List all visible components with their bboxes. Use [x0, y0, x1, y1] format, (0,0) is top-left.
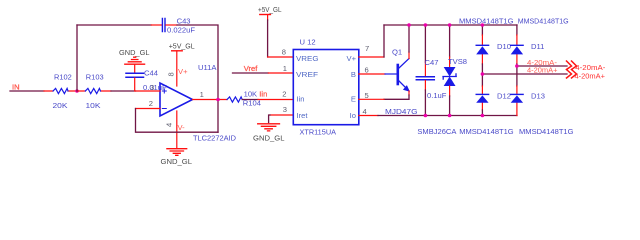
- svg-text:6: 6: [365, 66, 369, 75]
- svg-text:10K: 10K: [86, 101, 101, 110]
- svg-text:VREG: VREG: [296, 54, 319, 63]
- wire Io pin4 bottom bus: [359, 115, 517, 117]
- op-amp U11A: [136, 63, 237, 149]
- ground GND_GL above C44: [119, 48, 150, 73]
- svg-text:XTR115UA: XTR115UA: [300, 128, 337, 137]
- svg-text:R104: R104: [243, 99, 261, 108]
- svg-text:0.022uF: 0.022uF: [167, 25, 195, 34]
- capacitor C44: [126, 69, 167, 93]
- ground GND_GL at Iret: [253, 124, 285, 143]
- svg-text:C44: C44: [144, 69, 158, 78]
- svg-text:SMBJ26CA: SMBJ26CA: [417, 127, 457, 136]
- svg-text:7: 7: [365, 44, 369, 53]
- wire IN to R102: [10, 90, 44, 92]
- svg-text:0.1uF: 0.1uF: [427, 91, 447, 100]
- svg-text:U 12: U 12: [300, 37, 316, 46]
- svg-text:Q1: Q1: [392, 48, 402, 57]
- wire feedback loop: [136, 109, 219, 133]
- junction dots bottom bus: [424, 114, 428, 118]
- capacitor C43: [151, 17, 195, 35]
- diode D10: [476, 42, 511, 54]
- svg-text:TVS8: TVS8: [448, 57, 467, 66]
- diode D11: [511, 42, 545, 54]
- wire top-right bus: [384, 24, 517, 26]
- svg-text:V-: V-: [178, 123, 186, 132]
- svg-text:MMSD4148T1G: MMSD4148T1G: [459, 127, 514, 136]
- svg-text:4-20mA+: 4-20mA+: [527, 68, 558, 75]
- svg-text:V+: V+: [347, 54, 357, 63]
- svg-text:D10: D10: [497, 42, 511, 51]
- wire bridge left rail: [481, 25, 483, 116]
- svg-text:4-20mA+: 4-20mA+: [575, 73, 606, 80]
- svg-text:D11: D11: [531, 42, 544, 51]
- svg-text:U11A: U11A: [198, 63, 217, 72]
- power +5V_GL for U12: [258, 5, 293, 57]
- svg-text:GND_GL: GND_GL: [119, 48, 150, 57]
- svg-text:IN: IN: [12, 82, 20, 91]
- diode D13: [511, 92, 545, 103]
- wire output 4-20mA+: [482, 73, 567, 75]
- svg-text:4: 4: [165, 123, 174, 127]
- svg-text:Vref: Vref: [244, 64, 259, 73]
- transistor Q1: [384, 25, 418, 116]
- svg-text:1: 1: [283, 64, 287, 73]
- ground GND_GL below U11A: [161, 149, 193, 166]
- diode D12: [476, 92, 511, 103]
- wire E pin5: [359, 98, 384, 100]
- capacitor C47: [416, 25, 446, 116]
- resistor R102: [44, 72, 77, 110]
- svg-text:2: 2: [282, 90, 286, 99]
- op-amp U12 XTR115UA box: [282, 37, 369, 136]
- wire bridge right rail: [516, 25, 518, 116]
- wire B pin6 to Q1 base: [359, 73, 385, 75]
- wire output 4-20mA-: [517, 65, 567, 67]
- svg-text:MJD47G: MJD47G: [385, 107, 418, 116]
- junction dot bridge left mid: [481, 72, 485, 76]
- power +5V_GL for U11A: [169, 41, 195, 86]
- wire V+ pin7 riser to top bus: [359, 25, 384, 57]
- resistor R104: [227, 89, 293, 107]
- resistor R103: [77, 72, 111, 110]
- svg-text:8: 8: [282, 48, 286, 57]
- svg-text:MMSD4148T1G: MMSD4148T1G: [518, 17, 569, 26]
- svg-text:MMSD4148T1G: MMSD4148T1G: [519, 127, 574, 136]
- svg-text:Iin: Iin: [297, 95, 305, 104]
- svg-text:4-20mA-: 4-20mA-: [527, 60, 558, 67]
- svg-text:8: 8: [167, 72, 176, 76]
- node output junction: [216, 98, 220, 102]
- node A junction R102/R103: [75, 89, 79, 93]
- port 4-20mA+ chevron: [567, 70, 606, 81]
- svg-text:2: 2: [149, 99, 153, 108]
- TVS diode TVS8: [417, 25, 467, 136]
- svg-text:C43: C43: [177, 17, 191, 26]
- port 4-20mA- chevron: [567, 61, 607, 72]
- junction dot bridge right mid: [515, 64, 519, 68]
- svg-text:D12: D12: [497, 92, 511, 101]
- svg-text:Iret: Iret: [297, 111, 309, 120]
- svg-text:4-20mA-: 4-20mA-: [575, 65, 606, 72]
- junction dots top bus: [407, 23, 411, 27]
- svg-text:Io: Io: [350, 111, 356, 120]
- svg-text:Iin: Iin: [259, 89, 267, 98]
- svg-text:3: 3: [283, 105, 287, 114]
- svg-text:5: 5: [365, 91, 369, 100]
- wire riser from node A up to C43 bus: [76, 25, 78, 91]
- svg-text:1: 1: [200, 90, 204, 99]
- svg-text:3: 3: [150, 83, 154, 92]
- svg-text:R103: R103: [86, 72, 104, 81]
- svg-text:4: 4: [363, 107, 367, 116]
- wire C43 to output riser: [177, 25, 218, 132]
- svg-text:20K: 20K: [53, 101, 68, 110]
- wire R103 to U11A + input: [111, 90, 136, 92]
- svg-text:C47: C47: [425, 58, 439, 67]
- svg-text:E: E: [351, 95, 356, 104]
- svg-text:D13: D13: [531, 92, 545, 101]
- wire Iret to ground: [269, 115, 294, 123]
- svg-text:+5V_GL: +5V_GL: [258, 5, 282, 14]
- svg-text:GND_GL: GND_GL: [161, 157, 193, 166]
- svg-text:V+: V+: [178, 67, 188, 76]
- svg-text:B: B: [351, 70, 356, 79]
- svg-text:GND_GL: GND_GL: [253, 133, 285, 142]
- node Vref net label and wire: [233, 64, 294, 73]
- svg-text:R102: R102: [54, 72, 72, 81]
- svg-text:TLC2272AID: TLC2272AID: [193, 133, 236, 142]
- svg-text:10K: 10K: [244, 89, 258, 98]
- svg-text:MMSD4148T1G: MMSD4148T1G: [459, 17, 514, 26]
- svg-text:+5V_GL: +5V_GL: [169, 41, 195, 50]
- svg-text:VREF: VREF: [296, 70, 318, 79]
- wire top-left bus to C43: [77, 24, 151, 26]
